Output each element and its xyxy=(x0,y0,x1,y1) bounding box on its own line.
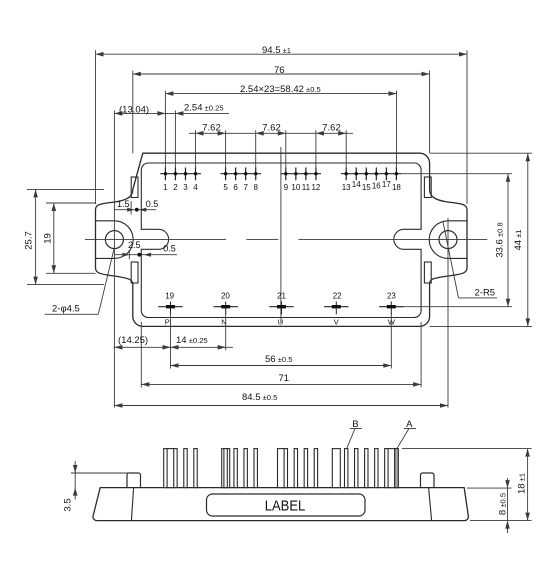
svg-text:9: 9 xyxy=(284,183,289,192)
svg-text:3.5: 3.5 xyxy=(63,498,74,511)
svg-text:B: B xyxy=(352,419,358,430)
svg-text:0.5: 0.5 xyxy=(163,244,176,254)
svg-text:V: V xyxy=(334,317,339,326)
svg-text:84.5 ±0.5: 84.5 ±0.5 xyxy=(242,392,277,403)
svg-text:71: 71 xyxy=(279,373,290,384)
svg-text:1.5: 1.5 xyxy=(117,199,130,209)
svg-text:8: 8 xyxy=(253,183,258,192)
svg-text:2-R5: 2-R5 xyxy=(475,287,496,298)
svg-text:15: 15 xyxy=(362,183,371,192)
svg-text:18 ±1: 18 ±1 xyxy=(517,473,528,494)
svg-text:21: 21 xyxy=(277,292,286,301)
svg-text:14: 14 xyxy=(352,180,361,189)
svg-text:P: P xyxy=(165,317,170,326)
svg-text:U: U xyxy=(278,317,283,326)
svg-text:18: 18 xyxy=(392,183,401,192)
svg-text:5: 5 xyxy=(223,183,228,192)
svg-text:2.54×23=58.42 ±0.5: 2.54×23=58.42 ±0.5 xyxy=(240,84,321,95)
svg-text:7.62: 7.62 xyxy=(262,123,281,134)
svg-text:(14.25): (14.25) xyxy=(118,335,148,346)
svg-text:10: 10 xyxy=(291,183,300,192)
svg-text:23: 23 xyxy=(387,292,396,301)
svg-text:76: 76 xyxy=(274,65,285,76)
svg-text:7.62: 7.62 xyxy=(202,123,221,134)
svg-text:20: 20 xyxy=(221,292,230,301)
svg-text:0.5: 0.5 xyxy=(146,199,159,209)
svg-text:3: 3 xyxy=(183,183,188,192)
svg-text:14 ±0.25: 14 ±0.25 xyxy=(176,335,208,346)
svg-text:19: 19 xyxy=(165,292,174,301)
svg-text:56 ±0.5: 56 ±0.5 xyxy=(265,354,292,365)
svg-text:4: 4 xyxy=(193,183,198,192)
svg-text:12: 12 xyxy=(311,183,320,192)
svg-text:LABEL: LABEL xyxy=(265,498,306,515)
svg-text:7: 7 xyxy=(243,183,248,192)
svg-text:2-φ4.5: 2-φ4.5 xyxy=(52,304,80,315)
svg-text:33.6 ±0.8: 33.6 ±0.8 xyxy=(495,222,506,257)
svg-text:A: A xyxy=(406,419,413,430)
svg-text:2.5: 2.5 xyxy=(128,240,141,250)
svg-text:25.7: 25.7 xyxy=(24,231,35,250)
svg-text:2: 2 xyxy=(173,183,178,192)
svg-text:13: 13 xyxy=(342,183,351,192)
svg-text:W: W xyxy=(388,317,396,326)
svg-text:(13.04): (13.04) xyxy=(119,104,149,115)
svg-text:94.5 ±1: 94.5 ±1 xyxy=(262,45,291,56)
svg-text:7.62: 7.62 xyxy=(322,123,341,134)
svg-text:1: 1 xyxy=(163,183,168,192)
svg-text:19: 19 xyxy=(43,233,54,244)
svg-text:8 ±0.5: 8 ±0.5 xyxy=(498,493,509,515)
svg-text:22: 22 xyxy=(333,292,342,301)
svg-text:11: 11 xyxy=(302,183,311,192)
svg-text:17: 17 xyxy=(382,180,391,189)
svg-text:6: 6 xyxy=(233,183,238,192)
svg-text:2.54 ±0.25: 2.54 ±0.25 xyxy=(184,103,224,114)
svg-text:44 ±1: 44 ±1 xyxy=(513,229,524,250)
svg-text:16: 16 xyxy=(372,182,381,191)
